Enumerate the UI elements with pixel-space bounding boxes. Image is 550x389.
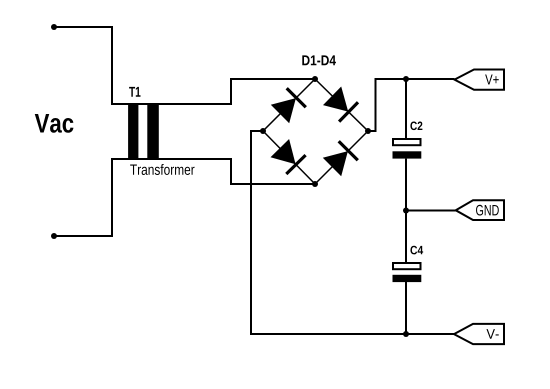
wire C2 top lead — [405, 79, 407, 139]
wire bridge edge left-bottom — [263, 131, 315, 184]
wire bridge edge bottom-right — [315, 131, 368, 184]
wire bridge edge top-right — [315, 79, 368, 131]
port GND — [456, 200, 504, 220]
node bridge left — [260, 128, 266, 134]
label Transformer — [130, 164, 194, 175]
capacitor C2 — [393, 139, 422, 159]
node bridge top — [312, 76, 318, 82]
capacitor C4 — [393, 263, 422, 282]
label C2 — [410, 121, 422, 130]
diode D3 — [271, 139, 306, 174]
wire primary top — [54, 27, 315, 104]
label D1-D4 — [302, 55, 336, 65]
wire C2 bottom lead — [405, 159, 407, 211]
label T1 — [129, 87, 140, 97]
diode D2 — [323, 87, 358, 122]
wire C4 top lead — [405, 211, 407, 264]
terminal dot top-left — [51, 24, 57, 30]
label C4 — [410, 246, 423, 255]
wire bridge left node to V- rail — [251, 131, 454, 334]
wire bridge right node to V+ rail — [368, 79, 455, 131]
wire bridge edge left-top — [263, 79, 315, 131]
node bridge bottom — [312, 181, 318, 187]
terminal dot bottom-left — [51, 233, 57, 239]
junction V+ rail — [403, 76, 409, 82]
junction GND rail — [403, 208, 409, 214]
junction V- rail — [403, 331, 409, 337]
wire C4 bottom lead — [405, 282, 407, 334]
port V- — [454, 324, 504, 344]
diode D4 — [323, 141, 358, 176]
transformer T1 — [128, 104, 159, 159]
wire primary bottom — [54, 159, 315, 236]
label Vac — [35, 114, 74, 133]
port V+ — [455, 70, 505, 90]
diode D1 — [271, 88, 306, 123]
wire GND rail — [406, 210, 456, 212]
node bridge right — [365, 128, 371, 134]
